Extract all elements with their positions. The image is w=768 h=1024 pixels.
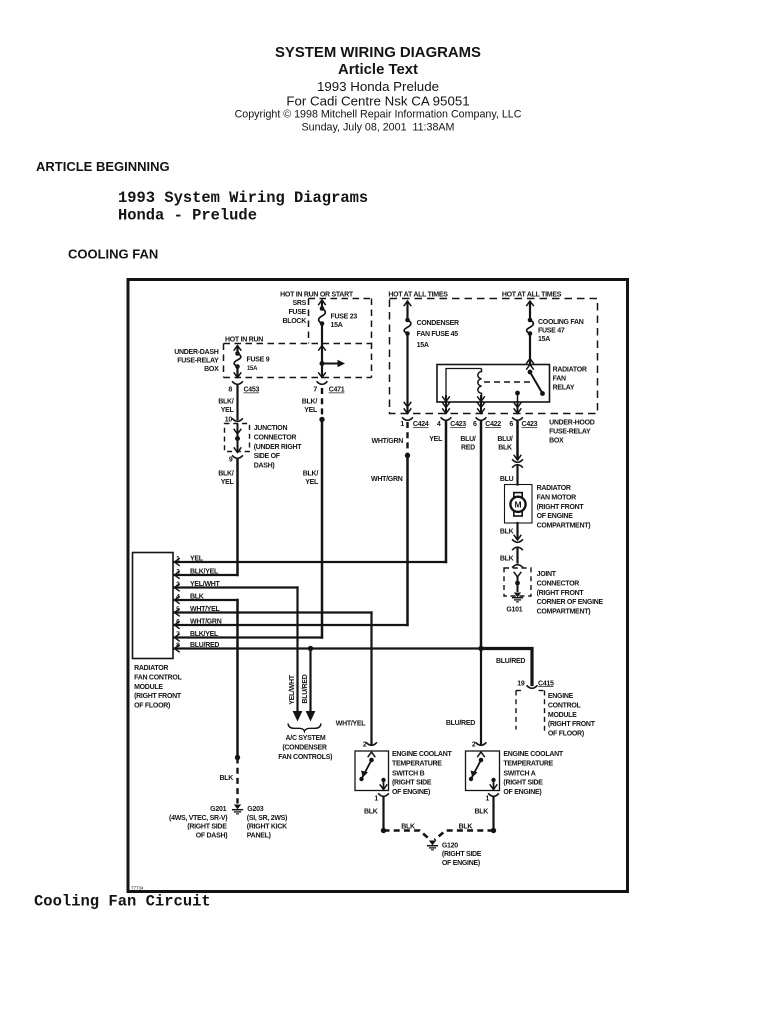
svg-text:9: 9 [229,457,233,464]
ground G101 [506,593,523,614]
svg-text:COOLING FAN: COOLING FAN [68,247,158,262]
wire BLU/RED to ECM connector C415 [481,649,532,685]
svg-text:BLK: BLK [459,824,473,831]
svg-text:15A: 15A [331,322,343,329]
svg-text:C423: C423 [450,421,466,428]
connector C423 pin 6 [509,417,537,428]
svg-text:COMPARTMENT): COMPARTMENT) [537,609,591,616]
connector C453 pin 8 [228,372,259,393]
svg-text:(RIGHT SIDE: (RIGHT SIDE [503,780,543,787]
wire BLK to joint connector [500,549,518,563]
svg-text:RADIATOR: RADIATOR [134,665,168,672]
svg-text:BLU/RED: BLU/RED [496,658,525,665]
svg-text:SWITCH B: SWITCH B [392,770,425,777]
wire BLU to radiator fan motor [500,467,518,485]
svg-text:ENGINE COOLANT: ENGINE COOLANT [392,751,452,758]
svg-text:HOT AT ALL TIMES: HOT AT ALL TIMES [502,292,562,299]
ground G201 / G203 [169,805,287,840]
svg-text:Article Text: Article Text [338,62,418,78]
svg-text:Honda - Prelude: Honda - Prelude [118,207,257,225]
svg-text:BLK: BLK [190,594,204,601]
svg-text:WHT/GRN: WHT/GRN [190,619,222,626]
wire BLK/YEL C453 down to junction connector [218,386,237,419]
arrow to A/C system (BLU/RED) [306,711,316,722]
svg-text:BLK/: BLK/ [218,399,234,406]
svg-text:SYSTEM WIRING DIAGRAMS: SYSTEM WIRING DIAGRAMS [275,45,481,61]
svg-text:JUNCTION: JUNCTION [254,425,288,432]
module pin 7 wire BLK/YEL [175,631,323,641]
svg-text:WHT/GRN: WHT/GRN [372,438,404,445]
wire BLK/YEL junction connector down to module pin 2 [218,460,319,576]
svg-text:OF FLOOR): OF FLOOR) [134,703,170,710]
svg-text:(4WS, VTEC, SR-V): (4WS, VTEC, SR-V) [169,815,227,822]
svg-text:OF ENGINE): OF ENGINE) [442,860,480,867]
joint connector (dashed box) [504,565,604,616]
radiator fan relay (box) [437,365,587,403]
svg-text:RADIATOR: RADIATOR [553,367,587,374]
svg-text:FUSE 23: FUSE 23 [331,314,358,321]
node: splice in under-dash box with branch arrow [320,360,346,368]
svg-text:15A: 15A [538,336,550,343]
svg-text:DASH): DASH) [254,463,275,470]
svg-text:6: 6 [509,421,513,428]
wire relay to C423 pin 4 [442,396,450,414]
svg-text:6: 6 [473,421,477,428]
svg-text:UNDER-DASH: UNDER-DASH [174,349,218,356]
svg-text:BLU/RED: BLU/RED [302,674,309,703]
svg-text:YEL: YEL [304,407,318,414]
svg-text:FUSE: FUSE [288,309,306,316]
relay contact [515,370,545,402]
svg-text:(RIGHT FRONT: (RIGHT FRONT [134,693,182,700]
wire BLU/RED splice down to A/C system [309,649,311,712]
svg-text:FUSE 9: FUSE 9 [247,357,270,364]
wire relay contact to C423 pin 6 [514,402,522,414]
node: splice BLU/RED to A/C branch [308,646,313,651]
svg-text:C415: C415 [538,680,554,687]
engine coolant temperature switch A [466,742,564,803]
condenser fan fuse 45 15A [404,301,459,349]
svg-text:A/C SYSTEM: A/C SYSTEM [286,735,326,742]
wire BLK (dashed) to ground G120 from switch B [384,824,431,840]
svg-text:BLK: BLK [401,824,415,831]
connector C471 pin 7 [313,372,344,393]
svg-text:FUSE-RELAY: FUSE-RELAY [549,429,591,436]
svg-text:CONNECTOR: CONNECTOR [537,580,580,587]
svg-text:OF ENGINE): OF ENGINE) [392,789,430,796]
wire BLU/RED C422 down to splice at ECM branch [460,422,481,649]
svg-text:(RIGHT FRONT: (RIGHT FRONT [548,721,596,728]
svg-text:BLK: BLK [500,556,514,563]
svg-text:WHT/GRN: WHT/GRN [371,476,403,483]
svg-text:C471: C471 [329,387,345,394]
page header [36,45,522,261]
wire WHT/GRN splice down to module pin 6 [371,456,407,626]
svg-text:RED: RED [461,445,475,452]
svg-text:BLK: BLK [219,775,233,782]
engine control module (dashed box) [516,691,596,738]
svg-text:BLOCK: BLOCK [283,318,307,325]
relay mechanical link (dashed) [484,381,532,383]
wire BLK module pin 4 down to ground splice [236,600,239,758]
node: splice on BLK/YEL column [319,417,324,422]
svg-text:M: M [514,500,521,510]
svg-text:FAN CONTROL: FAN CONTROL [134,674,182,681]
svg-text:CONNECTOR: CONNECTOR [254,434,297,441]
svg-text:2: 2 [472,742,476,749]
svg-text:SRS: SRS [292,300,306,307]
cooling fan fuse 47 15A [526,301,584,343]
svg-text:19: 19 [517,680,525,687]
svg-text:HOT IN RUN: HOT IN RUN [225,337,263,344]
svg-text:ENGINE COOLANT: ENGINE COOLANT [503,751,563,758]
svg-text:OF DASH): OF DASH) [196,832,228,839]
wire YEL C423-4 down to module pin 1 [429,422,446,562]
svg-text:BLU/RED: BLU/RED [446,720,475,727]
module pin 8 wire BLU/RED [175,642,482,652]
wire WHT/YEL module pin 5 down to switch B [336,613,372,745]
wire BLK (dashed) splice to ground [219,758,237,804]
svg-text:(CONDENSER: (CONDENSER [282,744,326,751]
svg-text:OF ENGINE: OF ENGINE [537,513,574,520]
node: splice under switch A [491,828,496,833]
svg-text:BLK/YEL: BLK/YEL [190,631,219,638]
wire BLK motor down to inline connector [500,523,518,539]
wire WHT/GRN C424 down (dashed) to splice [372,422,408,456]
wire BLK switch B to splice [364,798,384,831]
svg-text:(RIGHT SIDE: (RIGHT SIDE [392,780,432,787]
wire fuse 23 to C471 [318,324,326,378]
svg-text:8: 8 [228,387,232,394]
svg-text:OF ENGINE): OF ENGINE) [503,789,541,796]
svg-text:YEL/WHT: YEL/WHT [289,674,296,705]
svg-text:HOT AT ALL TIMES: HOT AT ALL TIMES [388,292,448,299]
svg-text:Cooling Fan Circuit: Cooling Fan Circuit [34,893,211,911]
svg-text:YEL: YEL [190,556,204,563]
svg-text:CONTROL: CONTROL [548,702,582,709]
svg-text:(RIGHT FRONT: (RIGHT FRONT [537,504,585,511]
svg-text:2: 2 [363,742,367,749]
module pin 6 wire WHT/GRN [175,619,408,629]
svg-text:FUSE 47: FUSE 47 [538,328,565,335]
connector C415 pin 19 [517,680,554,688]
module pin 4 wire BLK [175,594,238,604]
svg-text:BLK/YEL: BLK/YEL [190,569,219,576]
svg-text:BLK/: BLK/ [218,471,234,478]
svg-text:BLU: BLU [500,476,514,483]
svg-text:4: 4 [437,421,441,428]
svg-text:UNDER-HOOD: UNDER-HOOD [549,420,595,427]
svg-text:BOX: BOX [204,366,219,373]
svg-text:G101: G101 [506,607,522,614]
svg-text:C423: C423 [522,421,538,428]
wire BLK/YEL splice down to module pin 7 [321,420,324,638]
svg-text:(RIGHT SIDE: (RIGHT SIDE [442,851,482,858]
junction connector pin 10 (dashed box, under right side of dash) [225,417,303,470]
svg-text:10: 10 [225,417,233,424]
svg-text:15A: 15A [417,342,429,349]
svg-text:(UNDER RIGHT: (UNDER RIGHT [254,444,303,451]
svg-text:OF FLOOR): OF FLOOR) [548,731,584,738]
svg-text:MODULE: MODULE [548,712,577,719]
connector C424 pin 1 [400,417,429,428]
wire YEL/WHT module pin 3 down to A/C system [296,588,298,712]
relay coil [446,369,482,403]
svg-text:YEL/WHT: YEL/WHT [190,581,221,588]
svg-text:SIDE OF: SIDE OF [254,453,281,460]
svg-text:RELAY: RELAY [553,385,575,392]
svg-text:COOLING FAN: COOLING FAN [538,319,584,326]
svg-text:BLK/: BLK/ [302,399,318,406]
svg-text:WHT/YEL: WHT/YEL [190,606,221,613]
svg-text:PANEL): PANEL) [247,832,271,839]
svg-text:FAN CONTROLS): FAN CONTROLS) [278,754,332,761]
svg-text:FAN MOTOR: FAN MOTOR [537,494,577,501]
svg-text:YEL: YEL [221,479,235,486]
under-hood fuse-relay box (dashed) [390,299,598,445]
svg-text:FAN FUSE 45: FAN FUSE 45 [417,331,459,338]
arrow to A/C system (YEL/WHT) [293,711,303,722]
svg-text:1: 1 [485,796,489,803]
radiator fan control module (box) [133,553,183,710]
fuse 23 15A [318,300,357,329]
svg-text:CONDENSER: CONDENSER [417,320,459,327]
svg-text:(RIGHT KICK: (RIGHT KICK [247,824,287,831]
svg-text:JOINT: JOINT [537,571,557,578]
under-dash fuse-relay box (dashed) [174,344,371,378]
connector C422 pin 6 [473,417,501,428]
wire BLK/YEL C471 down (dashed) to splice [302,388,322,420]
svg-text:HOT IN RUN OR START: HOT IN RUN OR START [280,292,354,299]
connector C423 pin 4 [437,417,466,428]
svg-text:BLK/: BLK/ [303,471,319,478]
svg-text:BLK: BLK [364,808,378,815]
wire BLK switch A to splice [474,798,493,831]
svg-text:1993 Honda Prelude: 1993 Honda Prelude [317,79,439,94]
svg-text:1: 1 [374,796,378,803]
svg-text:15A: 15A [247,366,258,372]
diagram frame [128,280,628,892]
module pin 1 wire YEL [175,556,447,566]
svg-text:(RIGHT SIDE: (RIGHT SIDE [187,824,227,831]
wire fuse 45 down to C424 [404,334,412,414]
module pin 3 wire YEL/WHT [175,581,298,591]
svg-text:WHT/YEL: WHT/YEL [336,720,367,727]
svg-text:1: 1 [400,421,404,428]
engine coolant temperature switch B [355,742,452,803]
svg-text:1993 System Wiring Diagrams: 1993 System Wiring Diagrams [118,189,368,207]
svg-text:YEL: YEL [429,436,443,443]
wire BLU/BLK C423-6 down to inline connector [497,422,517,459]
svg-text:BLU/RED: BLU/RED [190,642,219,649]
svg-text:G201: G201 [210,806,226,813]
svg-text:COMPARTMENT): COMPARTMENT) [537,523,591,530]
svg-text:BOX: BOX [549,438,564,445]
wire fuse 9 to C453 [236,367,238,378]
svg-text:SWITCH A: SWITCH A [503,770,535,777]
svg-text:G120: G120 [442,842,458,849]
wire fuse 47 down to relay [526,334,534,370]
svg-text:FAN: FAN [553,376,566,383]
svg-text:MODULE: MODULE [134,684,163,691]
wire BLU/RED splice down to switch A [446,649,481,745]
ground G120 [427,841,482,867]
node: splice on BLK ground wire [235,755,240,760]
svg-text:TEMPERATURE: TEMPERATURE [503,760,553,767]
node: splice on WHT/GRN column [405,453,410,458]
module pin 5 wire WHT/YEL [175,606,372,616]
svg-text:ENGINE: ENGINE [548,693,574,700]
module pin 2 wire BLK/YEL [175,569,238,579]
svg-text:CORNER OF ENGINE: CORNER OF ENGINE [537,599,604,606]
node: splice BLU/RED at ECM branch [478,646,483,651]
inline connector on fan motor feed [512,455,523,468]
svg-text:ARTICLE BEGINNING: ARTICLE BEGINNING [36,159,170,174]
svg-text:(SI, SR, 2WS): (SI, SR, 2WS) [247,815,287,822]
svg-text:BLU/: BLU/ [497,436,513,443]
footer caption [34,886,211,911]
svg-text:C453: C453 [244,387,260,394]
svg-text:C422: C422 [485,421,501,428]
svg-text:YEL: YEL [305,479,319,486]
svg-text:7: 7 [313,387,317,394]
svg-text:(RIGHT FRONT: (RIGHT FRONT [537,590,585,597]
svg-text:77734: 77734 [131,886,144,891]
svg-text:TEMPERATURE: TEMPERATURE [392,760,442,767]
svg-text:BLK: BLK [500,529,514,536]
inline connector on motor ground wire [512,535,523,550]
fuse 9 15A [234,346,270,373]
svg-text:C424: C424 [413,421,429,428]
svg-text:BLU/: BLU/ [460,436,476,443]
svg-text:For Cadi Centre Nsk CA 95051: For Cadi Centre Nsk CA 95051 [286,93,469,108]
wire BLK (dashed) to ground G120 from switch A [435,824,494,840]
svg-text:RADIATOR: RADIATOR [537,485,571,492]
svg-text:G203: G203 [247,806,263,813]
wire relay coil to C422 pin 6 [477,396,485,414]
svg-text:BLK: BLK [498,445,512,452]
svg-text:Copyright © 1998 Mitchell Repa: Copyright © 1998 Mitchell Repair Informa… [235,109,522,121]
svg-text:FUSE-RELAY: FUSE-RELAY [177,358,219,365]
radiator fan motor M [505,485,591,530]
brace A/C system [278,724,332,761]
svg-text:BLK: BLK [474,808,488,815]
SRS fuse block (dashed box) [283,299,372,378]
node: splice under switch B [381,828,386,833]
svg-text:YEL: YEL [221,407,235,414]
svg-text:Sunday, July 08, 2001 11:38AM: Sunday, July 08, 2001 11:38AM [302,122,455,134]
